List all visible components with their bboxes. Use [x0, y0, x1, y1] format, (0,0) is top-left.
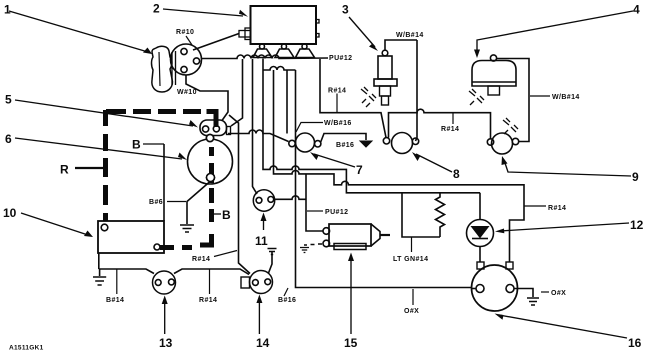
callout 11 [255, 213, 268, 249]
regulator dashed box R : bottom edge [160, 245, 214, 248]
indicator feed bus wire W_a [263, 59, 480, 193]
callout 2 [153, 2, 248, 17]
callout 3 [342, 3, 378, 52]
svg-text:R#14: R#14 [441, 126, 459, 133]
label R#14 (lamp bus) [441, 113, 459, 133]
wire horn to right vertical W/B#14 [497, 59, 529, 142]
callout 4 [474, 3, 640, 59]
svg-text:15: 15 [344, 336, 358, 350]
wire connector 14 to ground [268, 249, 277, 274]
svg-text:1: 1 [4, 3, 11, 17]
svg-text:PU#12: PU#12 [325, 209, 348, 216]
label B#16 (connector 14) [278, 288, 296, 304]
resistor [436, 193, 445, 237]
wire long drop to connector 14 [229, 115, 250, 274]
connector 11 [253, 190, 274, 211]
wire R#14 drop from PU bus [320, 59, 386, 138]
callout 1 [4, 3, 152, 55]
svg-text:A1511GK1: A1511GK1 [9, 345, 44, 351]
lamp 7 [289, 133, 321, 152]
svg-text:10: 10 [3, 206, 17, 220]
wire B to battery [163, 144, 165, 221]
wire connector11 to item15 feed [275, 196, 307, 200]
svg-text:6: 6 [5, 132, 12, 146]
connector 5 [200, 120, 231, 136]
wire W#10 route [186, 75, 228, 121]
connector 14 [241, 271, 273, 294]
svg-text:W/B#14: W/B#14 [396, 32, 424, 39]
label R#14 (battery row) [192, 251, 237, 264]
svg-text:11: 11 [255, 234, 268, 248]
svg-text:16: 16 [628, 336, 642, 350]
regulator dashed box R : left edge [103, 110, 108, 221]
battery (item 10) [98, 221, 164, 253]
svg-text:R#14: R#14 [328, 88, 346, 95]
wire resistor bottom loop [402, 193, 440, 237]
key (item 1) [152, 46, 176, 92]
svg-text:W/B#16: W/B#16 [324, 120, 352, 127]
horn (item 4) [472, 55, 516, 95]
wire lamp7 to ground B#16 [321, 134, 372, 148]
label R#14 (mid) [328, 88, 346, 113]
svg-text:O#X: O#X [404, 308, 419, 315]
label R#10 [176, 29, 194, 45]
svg-text:B#14: B#14 [106, 297, 124, 304]
svg-text:B#6: B#6 [149, 199, 163, 206]
callout 8 [412, 152, 460, 181]
lamp 8 [383, 133, 418, 154]
diode (item 12) [467, 193, 494, 262]
svg-text:3: 3 [342, 3, 349, 17]
label W/B#16 [296, 120, 352, 132]
flame detector sender (item 3) [374, 50, 397, 105]
regulator dashed box R : right edge [212, 109, 217, 248]
generator (item 6) [188, 134, 233, 184]
wire item3 W/B#14 [385, 40, 417, 50]
svg-text:13: 13 [159, 336, 173, 350]
wire battery to bottom bus [98, 253, 100, 269]
svg-text:12: 12 [630, 218, 644, 232]
svg-text:PU#12: PU#12 [329, 55, 352, 62]
lamp 9 [487, 133, 518, 154]
switch terminal T3 [296, 44, 315, 58]
svg-text:2: 2 [153, 2, 160, 16]
svg-text:9: 9 [632, 170, 639, 184]
svg-text:7: 7 [356, 163, 363, 177]
wire generator to ground B#6 [180, 182, 210, 233]
connector 13 [153, 271, 176, 294]
callout R [60, 163, 103, 177]
wire second hump bus [263, 67, 296, 71]
label O#X (right) [541, 290, 566, 297]
regulator dashed box R : top edge [106, 109, 214, 114]
wire drop to indicator bus [286, 70, 288, 134]
label R#14 (bottom) [199, 269, 217, 304]
switch terminal T2 [275, 44, 294, 58]
svg-text:B: B [132, 138, 141, 152]
callout 10 [3, 206, 93, 237]
svg-text:B#16: B#16 [278, 297, 296, 304]
gauge (item 16) [472, 262, 518, 311]
label B#6 [149, 199, 186, 206]
switch terminal T1 [253, 44, 272, 58]
svg-text:R#14: R#14 [548, 205, 566, 212]
svg-text:8: 8 [453, 167, 460, 181]
label B (right of dashed box) [214, 208, 231, 222]
ground (bottom left) [93, 269, 106, 285]
svg-text:R#14: R#14 [199, 297, 217, 304]
label O#X (bottom) [404, 289, 419, 315]
svg-text:O#X: O#X [551, 290, 566, 297]
spark marks (item 4) [469, 89, 484, 105]
label B (generator terminal) [132, 138, 164, 152]
callout 15 [344, 253, 358, 351]
svg-text:14: 14 [256, 336, 270, 350]
label B#14 [106, 269, 124, 304]
label LT GN#14 [393, 237, 428, 263]
ignition switch box U2 [239, 6, 319, 44]
wire long drop to bottom bus [296, 70, 472, 288]
svg-text:R#10: R#10 [176, 29, 194, 36]
ignition switch connector (rear of item 1) [171, 44, 202, 75]
callout 7 [310, 152, 363, 177]
svg-text:5: 5 [5, 93, 12, 107]
svg-text:W#10: W#10 [177, 89, 197, 96]
bottom-left bus wire [99, 269, 249, 275]
svg-text:W/B#14: W/B#14 [552, 94, 580, 101]
spark marks (lamp 9) [503, 118, 518, 134]
svg-text:B#16: B#16 [336, 142, 354, 149]
callout 13 [159, 296, 173, 351]
label R#14 (right) [524, 205, 566, 212]
wire W/B#14 drop to lamp8 [416, 40, 418, 141]
fuel sender (item 15) [323, 224, 390, 250]
svg-text:4: 4 [633, 3, 640, 17]
callout 6 [5, 132, 187, 160]
svg-text:R: R [60, 163, 69, 177]
label PU#12 (item15) [307, 209, 348, 216]
callout 9 [502, 156, 640, 184]
dashed ground wire (item 15) [300, 244, 322, 253]
wire gauge right to ground [514, 289, 539, 306]
generator terminal circles (drawn over dashes) [206, 134, 214, 181]
callout 5 [5, 93, 198, 128]
callout 16 [495, 314, 642, 351]
wire lamp7 feed with humps [228, 130, 289, 141]
svg-text:B: B [222, 208, 231, 222]
wire bus from connector1 with crossover humps (PU#12 wire) [202, 55, 329, 58]
wire lamp8 to lamp9 bus [389, 109, 491, 138]
spark marks (item 3) [361, 87, 376, 107]
wire drops from switch to connector 5 [231, 59, 257, 194]
callout 12 [495, 218, 644, 233]
label W/B#14 (right) [530, 94, 580, 101]
wire connector1 top to switch tab [193, 34, 239, 51]
svg-text:R#14: R#14 [192, 256, 210, 263]
callout 14 [256, 295, 270, 351]
wire gauge left [472, 288, 477, 290]
svg-text:LT GN#14: LT GN#14 [393, 256, 428, 263]
wire item15 feed PU#12 [274, 70, 525, 262]
